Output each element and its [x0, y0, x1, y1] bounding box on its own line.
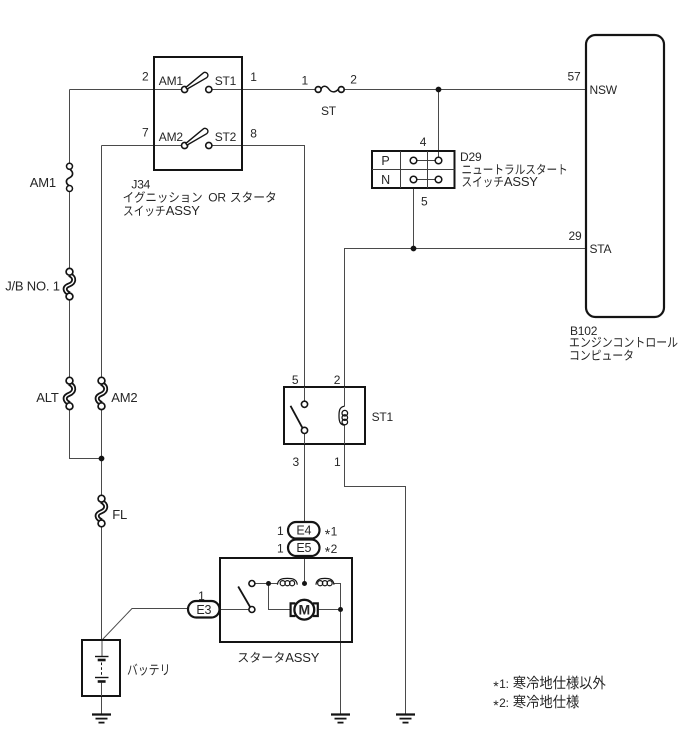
svg-text:ST: ST [321, 104, 337, 118]
D29 caption [460, 150, 566, 189]
starter ASSY box [220, 558, 352, 642]
svg-text:E5: E5 [296, 541, 311, 555]
wire: coil B to right leg, down to ground [334, 584, 341, 714]
svg-text:M: M [298, 602, 309, 618]
svg-text:1: 1 [198, 589, 205, 603]
neutral start switch D29 box [372, 151, 455, 188]
svg-text:2:: 2: [499, 696, 509, 710]
starter pull-in coil [277, 578, 297, 584]
relay contact [291, 387, 308, 444]
svg-text:1: 1 [277, 524, 284, 538]
svg-text:1: 1 [302, 74, 309, 88]
ECU B102 box [586, 35, 664, 317]
wire: battery internal [101, 640, 103, 657]
wire: J34 pin1 to fuse ST [242, 89, 315, 91]
svg-text:E3: E3 [196, 603, 211, 617]
wire: left bus vertical (AM1/JB/ALT chain) [69, 90, 71, 164]
ground (starter) [331, 713, 350, 715]
wire: fuse ST to ECU pin57 (NSW) [344, 89, 586, 91]
svg-text:AM1: AM1 [159, 74, 184, 88]
wire: J34 row1 internal [154, 89, 182, 91]
svg-text:5: 5 [421, 195, 428, 209]
svg-text:1: 1 [250, 70, 257, 84]
relay ST1 box [284, 387, 365, 444]
svg-text:8: 8 [250, 127, 257, 141]
wire: J34 pin2 to left bus [70, 89, 155, 91]
svg-text:3: 3 [293, 455, 300, 469]
wire: D29 pin5 drop [413, 188, 415, 249]
wire: STA line relay pin2 to ECU pin29 [345, 249, 587, 388]
wire: J34 row2 internal [154, 145, 182, 147]
svg-text:ST2: ST2 [215, 130, 237, 144]
junction dot starter coil left [266, 581, 271, 586]
wire: right bus vertical (AM2/FL chain to battery) [101, 146, 103, 378]
connector AM2 [97, 383, 106, 403]
E4 note *1 [325, 525, 338, 542]
svg-text:ST1: ST1 [215, 74, 237, 88]
svg-text:J/B NO. 1: J/B NO. 1 [5, 279, 60, 294]
svg-text:2: 2 [142, 70, 149, 84]
battery box [82, 640, 120, 696]
svg-text:AM2: AM2 [159, 130, 184, 144]
wire: E3 into starter switch [220, 609, 250, 611]
D29 P row terminals [410, 157, 442, 164]
ground (battery) [92, 713, 111, 715]
connector J/B NO.1 [65, 274, 74, 294]
J34 AM1 contact [182, 72, 208, 92]
fuse ST [315, 86, 344, 92]
connector E3 [188, 601, 220, 618]
note *2 [493, 695, 579, 714]
svg-text:B102: B102 [570, 324, 598, 338]
connector E5 [288, 540, 320, 557]
svg-text:STA: STA [590, 242, 612, 256]
svg-text:AM2: AM2 [111, 390, 137, 405]
wire: motor to right leg [318, 609, 341, 611]
junction dot motor right [338, 607, 343, 612]
wire: J34 pin8 riser to relay pin5 [242, 146, 305, 388]
connector ALT [65, 383, 74, 403]
svg-text:J34: J34 [131, 178, 150, 192]
svg-text:P: P [381, 154, 389, 168]
svg-text:1:: 1: [499, 677, 509, 691]
svg-text:2: 2 [350, 73, 357, 87]
wire: battery negative to ground [101, 682, 103, 714]
svg-text:29: 29 [569, 229, 582, 243]
motor brushes [291, 603, 318, 616]
svg-text:FL: FL [112, 507, 127, 522]
starter magnetic switch contact [238, 581, 255, 613]
svg-text:7: 7 [142, 126, 149, 140]
J34 AM2 contact [182, 128, 208, 148]
svg-text:OR: OR [208, 191, 226, 205]
svg-text:ASSY: ASSY [166, 203, 200, 218]
svg-text:57: 57 [568, 70, 581, 84]
svg-text:ASSY: ASSY [285, 650, 319, 665]
junction dot STA/D29 pin5 [411, 246, 417, 252]
svg-text:1: 1 [334, 455, 341, 469]
note *1 [493, 676, 605, 695]
connector FL [97, 501, 106, 521]
D29 N row terminals [410, 176, 442, 183]
svg-text:ST1: ST1 [372, 410, 394, 424]
svg-text:N: N [381, 173, 390, 187]
svg-text:NSW: NSW [590, 83, 618, 97]
junction dot starter coil mid [302, 581, 307, 586]
relay coil [339, 387, 348, 444]
svg-text:ALT: ALT [36, 390, 59, 405]
starter holding coil [316, 578, 334, 584]
connector AM1 [66, 169, 72, 186]
wire: relay pin3 to E4 [304, 444, 306, 522]
D29 pin4 stub [438, 152, 440, 157]
motor M1 [294, 600, 314, 620]
starter ASSY caption [239, 650, 320, 665]
ground (relay pin1) [396, 713, 415, 715]
wire: relay pin1 to ground [345, 444, 406, 714]
connector E4 [288, 522, 320, 539]
J34 ST1 contact [206, 86, 212, 92]
svg-text:4: 4 [420, 135, 427, 149]
svg-text:1: 1 [277, 542, 284, 556]
wire: battery to E3 [102, 609, 189, 641]
svg-text:ASSY: ASSY [504, 174, 538, 189]
svg-text:2: 2 [334, 373, 341, 387]
junction dot left/right bus [99, 456, 105, 462]
B102 caption [570, 324, 678, 361]
wire: starter junction drop to motor [269, 584, 291, 610]
battery cells [95, 657, 109, 697]
E5 note *2 [325, 542, 338, 559]
svg-text:5: 5 [292, 373, 299, 387]
svg-text:E4: E4 [296, 523, 311, 537]
wire: starter internal top row [255, 583, 278, 585]
J34 caption [124, 178, 276, 219]
J34 ST2 contact [206, 142, 212, 148]
wire: J34 pin7 to right bus [102, 145, 155, 147]
junction dot NSW/D29 [436, 87, 442, 93]
ignition switch J34 box [154, 57, 242, 170]
wire: E5 into starter box [304, 555, 306, 584]
svg-text:AM1: AM1 [30, 175, 56, 190]
svg-text:1: 1 [331, 525, 338, 539]
svg-text:D29: D29 [460, 150, 482, 164]
battery caption [128, 664, 168, 676]
wire: junction to D29 pin4 [438, 90, 440, 158]
svg-text:2: 2 [331, 542, 338, 556]
